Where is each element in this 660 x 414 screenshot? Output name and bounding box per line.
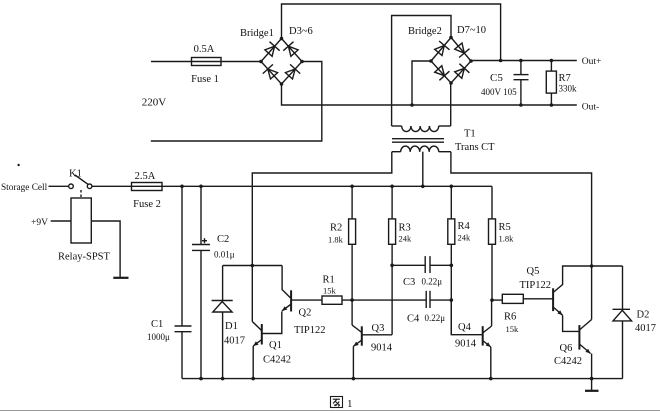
wire 220V live in — [151, 61, 192, 63]
transistor Q1 emitter — [253, 340, 262, 379]
svg-text:0.22μ: 0.22μ — [422, 277, 443, 287]
junction rail/C2 — [199, 185, 203, 189]
svg-text:24k: 24k — [458, 233, 472, 243]
label R1 — [323, 275, 335, 286]
svg-text:R6: R6 — [504, 312, 516, 323]
wire +9V to relay — [51, 220, 71, 222]
caption figure glyph — [331, 397, 343, 408]
transistor Q4 base bar — [482, 326, 484, 345]
resistor R3 — [389, 186, 396, 334]
transistor Q3 base bar — [361, 326, 363, 345]
svg-text:Q1: Q1 — [269, 340, 282, 351]
transistor Q2 base lead — [291, 299, 322, 301]
wire secondary right to Q6 collector node — [451, 152, 592, 266]
diode D1 — [212, 266, 233, 379]
diode D9 bridge2 bottom-left — [435, 66, 450, 81]
transistor Q2 base bar — [290, 290, 292, 311]
label Out+ — [582, 57, 602, 67]
node bridge2 right — [469, 59, 473, 63]
label Q1 C4242 — [263, 355, 291, 366]
svg-text:Bridge2: Bridge2 — [408, 26, 442, 37]
svg-text:Storage Cell: Storage Cell — [1, 183, 48, 193]
transistor Q6 base bar — [578, 325, 580, 350]
junction Q4 collector / R5 — [490, 298, 494, 302]
label R7 — [559, 73, 571, 84]
switch K1 — [69, 175, 92, 189]
label Q6 — [560, 343, 573, 354]
junction bridge2-left / Out- — [410, 103, 414, 107]
label C4 — [407, 314, 420, 325]
bridge rectifier Bridge2 frame — [431, 38, 471, 84]
svg-text:+9V: +9V — [31, 218, 48, 228]
svg-text:9014: 9014 — [371, 343, 393, 354]
node bridge2 left — [429, 59, 433, 63]
junction rail/C1 — [180, 185, 184, 189]
transistor Q2 collector — [282, 266, 291, 299]
junction C4 right / R4 / Q4 base — [450, 298, 454, 302]
resistor R6 — [502, 294, 523, 303]
resistor R2 — [349, 186, 356, 300]
svg-text:15k: 15k — [506, 324, 520, 334]
label T1 — [464, 129, 476, 140]
svg-text:C3: C3 — [403, 277, 415, 288]
diode D8 bridge2 top-right — [455, 43, 470, 58]
resistor R5 — [489, 186, 496, 300]
fuse F2 — [132, 183, 163, 191]
svg-text:15k: 15k — [323, 286, 337, 296]
diode D2 — [592, 266, 632, 379]
junction C3 right / R4 — [450, 264, 454, 268]
resistor R4 — [448, 186, 455, 334]
svg-text:T1: T1 — [464, 129, 476, 140]
transformer T1 secondary winding — [392, 146, 451, 152]
wire K1 to fuse2 — [92, 185, 132, 187]
junction rail/R3 — [390, 185, 394, 189]
junction gnd/Q4 — [489, 377, 493, 381]
label +9V — [31, 218, 48, 228]
diode D3 bridge1 top-left — [265, 42, 280, 57]
junction gnd/Q3 — [352, 377, 356, 381]
transistor Q4 emitter — [483, 341, 491, 379]
svg-text:C4242: C4242 — [554, 356, 582, 367]
wire center tap to +9V rail — [422, 152, 424, 187]
label D2 — [637, 310, 650, 321]
capacitor C5 — [514, 61, 529, 106]
svg-text:4017: 4017 — [635, 323, 656, 334]
transistor Q6 collector — [579, 266, 591, 330]
svg-text:C5: C5 — [490, 72, 503, 84]
svg-text:R4: R4 — [458, 221, 471, 232]
svg-text:1.8k: 1.8k — [499, 234, 515, 244]
transistor Q6 emitter — [579, 344, 591, 379]
label C3 — [403, 277, 415, 288]
wire relay to ground tick — [91, 221, 120, 278]
diode D4 bridge1 top-right — [283, 42, 298, 57]
node bridge1 right — [300, 60, 304, 64]
svg-text:Fuse 2: Fuse 2 — [133, 199, 161, 210]
svg-text:1000μ: 1000μ — [147, 332, 170, 342]
label Q5 TIP122 — [520, 280, 552, 291]
label Q2 — [299, 308, 312, 319]
transformer core — [392, 139, 444, 143]
svg-text:24k: 24k — [399, 234, 413, 244]
transistor Q1 base lead — [262, 312, 282, 334]
junction R7 bottom — [550, 103, 554, 107]
diode D6 bridge1 bottom-right — [285, 64, 300, 79]
label C5 — [490, 72, 503, 84]
label Out- — [582, 103, 599, 113]
svg-text:R7: R7 — [559, 73, 571, 84]
svg-text:220V: 220V — [142, 97, 167, 109]
label 0.5A — [194, 44, 215, 55]
node bridge1 top — [280, 37, 284, 41]
label D3~6 — [289, 26, 313, 37]
svg-text:D2: D2 — [637, 310, 650, 321]
label 220V — [142, 97, 167, 109]
svg-text:Out+: Out+ — [582, 57, 602, 67]
label 2.5A — [135, 171, 156, 182]
junction top feed / Out+ — [499, 59, 503, 63]
dashed link K1 to relay — [80, 190, 82, 198]
label R3 — [399, 223, 411, 234]
svg-text:C2: C2 — [217, 234, 229, 245]
label 330k — [559, 84, 578, 94]
label C3 0.22u — [422, 277, 443, 287]
label Q2 TIP122 — [294, 325, 326, 336]
transistor Q4 base — [451, 300, 482, 335]
svg-text:D7~10: D7~10 — [457, 25, 486, 36]
svg-text:TIP122: TIP122 — [294, 325, 326, 336]
transistor Q3 collector — [352, 300, 362, 332]
label C2 — [217, 234, 229, 245]
label R1 15k — [323, 286, 337, 296]
junction R7 top — [550, 59, 554, 63]
svg-text:0.22μ: 0.22μ — [425, 313, 446, 323]
node bridge1 bottom — [280, 82, 284, 86]
svg-text:C4: C4 — [407, 314, 420, 325]
label R2 1.8k — [328, 235, 344, 245]
node bridge2 top — [449, 36, 453, 40]
svg-text:9014: 9014 — [455, 339, 477, 350]
wire bridge1 bottom to Out- bus — [282, 84, 577, 105]
transistor Q5 base bar — [552, 288, 554, 311]
fuse F1 — [192, 58, 222, 66]
junction rail/R2 — [350, 185, 354, 189]
label 1000u — [147, 332, 170, 342]
label D7~10 — [457, 25, 486, 36]
scan speck — [17, 164, 19, 166]
svg-text:400V 105: 400V 105 — [481, 87, 517, 97]
wire R5-R6 link — [492, 299, 502, 301]
label Q3 — [372, 323, 385, 334]
transistor Q4 collector — [483, 300, 492, 333]
svg-text:D1: D1 — [225, 321, 238, 332]
label R4 24k — [458, 233, 472, 243]
svg-text:Q5: Q5 — [527, 266, 540, 277]
svg-text:R5: R5 — [499, 222, 511, 233]
svg-text:R3: R3 — [399, 223, 411, 234]
wire secondary left to Q1 collector — [252, 152, 391, 322]
ground tick under relay — [113, 277, 128, 279]
label Q4 9014 — [455, 339, 477, 350]
junction gnd/C2 — [199, 377, 203, 381]
wire R1 to oscillator line — [342, 299, 426, 301]
label R2 — [330, 223, 342, 234]
capacitor C1 — [175, 186, 192, 378]
resistor R7 — [546, 61, 556, 106]
svg-text:0.01μ: 0.01μ — [214, 250, 235, 260]
svg-text:Q2: Q2 — [299, 308, 312, 319]
label R5 — [499, 222, 511, 233]
bridge rectifier Bridge1 frame — [261, 39, 302, 85]
label D1 — [225, 321, 238, 332]
diode D5 bridge1 bottom-left — [263, 64, 278, 79]
wire bridge2 left to Out- bus — [412, 61, 431, 105]
label Bridge2 — [408, 26, 442, 37]
label C1 — [151, 319, 163, 330]
svg-text:R2: R2 — [330, 223, 342, 234]
plus sign C2 — [202, 238, 207, 243]
label 0.01u — [214, 250, 235, 260]
svg-text:2.5A: 2.5A — [135, 171, 156, 182]
wire R6 to Q5 base — [523, 298, 553, 300]
label D2 4017 — [635, 323, 656, 334]
capacitor C4 — [426, 291, 451, 308]
node bridge1 left — [259, 60, 263, 64]
caption 1 — [347, 398, 353, 410]
label Q5 — [527, 266, 540, 277]
transistor Q1 collector lead — [252, 322, 261, 331]
ground symbol — [585, 379, 599, 391]
transistor Q5 emitter — [553, 307, 579, 331]
label R6 15k — [506, 324, 520, 334]
svg-text:1.8k: 1.8k — [328, 235, 344, 245]
junction node B collector/winding/D2 — [590, 264, 594, 268]
label C4 0.22u — [425, 313, 446, 323]
svg-text:Q3: Q3 — [372, 323, 385, 334]
wire bridge1 top to Out+ bus — [282, 4, 501, 61]
svg-text:1: 1 — [347, 398, 353, 410]
junction R2 bottom — [350, 298, 354, 302]
label Fuse 1 — [191, 74, 219, 85]
junction C5 top — [519, 59, 523, 63]
junction main vertical node A — [251, 264, 255, 268]
label Q1 — [269, 340, 282, 351]
svg-text:D3~6: D3~6 — [289, 26, 313, 37]
junction gnd/D1 — [221, 377, 225, 381]
capacitor C2 polarized — [192, 186, 210, 378]
wire ground rail — [182, 378, 623, 380]
wire storage cell to K1 — [49, 185, 69, 187]
label Q3 9014 — [371, 343, 393, 354]
svg-text:Q6: Q6 — [560, 343, 573, 354]
svg-text:K1: K1 — [69, 169, 82, 180]
transistor Q1 base bar — [261, 324, 263, 345]
label Fuse 2 — [133, 199, 161, 210]
label Bridge1 — [240, 28, 274, 39]
transistor Q5 collector — [553, 266, 592, 293]
svg-text:Relay-SPST: Relay-SPST — [58, 252, 111, 263]
diode D7 bridge2 top-left — [435, 41, 450, 56]
junction gnd/Q1 — [251, 377, 255, 381]
svg-text:Fuse 1: Fuse 1 — [191, 74, 219, 85]
relay coil Relay-SPST — [71, 198, 91, 243]
wire primary right to bridge2 bottom — [450, 83, 452, 126]
svg-text:C1: C1 — [151, 319, 163, 330]
junction C5 bottom — [519, 103, 523, 107]
wire bridge2 top to primary left — [392, 16, 451, 127]
junction rail/center-tap — [421, 185, 425, 189]
svg-text:C4242: C4242 — [263, 355, 291, 366]
node bridge2 bottom — [449, 81, 453, 85]
label 400V 105 — [481, 87, 517, 97]
resistor R1 — [322, 296, 342, 304]
label Storage Cell — [1, 183, 48, 193]
svg-text:330k: 330k — [559, 84, 578, 94]
diode D10 bridge2 bottom-right — [455, 64, 470, 79]
transistor Q3 emitter — [353, 340, 361, 379]
label Trans CT — [455, 142, 495, 153]
label Q6 C4242 — [554, 356, 582, 367]
transformer T1 primary winding — [392, 126, 451, 132]
svg-text:4017: 4017 — [224, 336, 245, 347]
junction C3 left / R3 — [390, 264, 394, 268]
label Relay-SPST — [58, 252, 111, 263]
svg-text:R1: R1 — [323, 275, 335, 286]
scan edge line — [0, 410, 660, 412]
label R3 24k — [399, 234, 413, 244]
label R4 — [458, 221, 471, 232]
svg-text:0.5A: 0.5A — [194, 44, 215, 55]
wire fuse1 to bridge1 — [221, 61, 261, 63]
label R6 — [504, 312, 516, 323]
wire +9V rail — [162, 185, 492, 187]
label D1 4017 — [224, 336, 245, 347]
svg-text:TIP122: TIP122 — [520, 280, 552, 291]
svg-text:Trans CT: Trans CT — [455, 142, 495, 153]
transistor Q3 base lead — [362, 334, 392, 336]
label K1 — [69, 169, 82, 180]
label Q4 — [458, 322, 472, 333]
wire 220V neutral — [151, 62, 322, 142]
wire Out+ bus — [471, 60, 577, 62]
junction rail/R4 — [450, 185, 454, 189]
label R5 1.8k — [499, 234, 515, 244]
capacitor C3 — [392, 256, 451, 273]
svg-text:Out-: Out- — [582, 103, 599, 113]
wire D1/Q1-collector/Q2-collector node — [223, 265, 283, 267]
transistor Q2 emitter — [282, 305, 291, 311]
svg-text:Q4: Q4 — [458, 322, 472, 333]
junction gnd/Q6 — [590, 377, 594, 381]
svg-text:Bridge1: Bridge1 — [240, 28, 274, 39]
